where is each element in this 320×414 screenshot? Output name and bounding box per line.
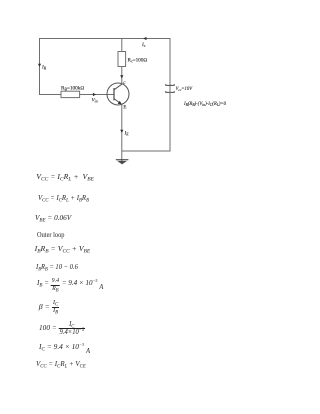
equation line 5 (35, 245, 91, 253)
svg-text:E: E (123, 106, 126, 111)
wire: base wire right segment (80, 94, 114, 96)
equation line 9 (39, 321, 85, 336)
wire: left vertical (39, 38, 41, 95)
battery V_CC (165, 84, 193, 92)
svg-text:RB=100kΩ: RB=100kΩ (61, 86, 84, 92)
wire: right vertical lower (169, 92, 171, 151)
node V_in arrow (92, 93, 98, 104)
equation line 1 (36, 173, 94, 181)
svg-text:Ic: Ic (141, 42, 146, 48)
equation line 10 (39, 343, 90, 351)
equation line 6 (36, 263, 78, 271)
wire: base wire left segment (39, 94, 61, 96)
resistor R_C (118, 52, 147, 67)
wire: R_C top lead (121, 38, 123, 52)
svg-text:Vin: Vin (92, 98, 98, 104)
svg-text:Rc=100Ω: Rc=100Ω (128, 58, 148, 64)
resistor R_B (61, 86, 84, 98)
current arrow on collector lead (120, 75, 123, 78)
heading Outer loop (37, 231, 64, 239)
transistor Q1 (107, 81, 129, 111)
wire: right vertical upper (169, 38, 171, 85)
svg-text:Vcc=10V: Vcc=10V (176, 87, 194, 92)
ground (116, 160, 129, 165)
wire: emitter lead down (121, 105, 123, 162)
wire: top horizontal (39, 38, 170, 40)
svg-text:c: c (123, 81, 126, 86)
svg-text:IB: IB (41, 65, 47, 71)
equation line 8 (39, 300, 60, 314)
current arrow I_B (38, 64, 47, 71)
svg-text:IB(RB)-(Vin)-IC(RL)=0: IB(RB)-(Vin)-IC(RL)=0 (183, 102, 227, 107)
equation line 11 (36, 360, 86, 368)
equation line 2 (38, 194, 89, 202)
svg-text:IE: IE (124, 131, 130, 137)
equation line 7 (37, 276, 103, 290)
equation line 3 (35, 214, 71, 222)
wire: bottom horizontal (122, 150, 170, 152)
current arrow I_E (120, 130, 129, 137)
current arrow I_C on top wire (141, 37, 147, 48)
wire: collector lead (121, 67, 123, 85)
